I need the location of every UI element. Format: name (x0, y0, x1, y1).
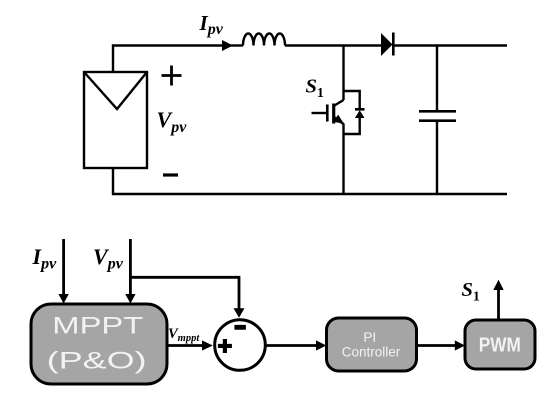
svg-text:PWM: PWM (479, 334, 521, 357)
svg-text:Controller: Controller (342, 345, 401, 360)
svg-text:PI: PI (363, 330, 376, 345)
svg-text:(P&O): (P&O) (47, 348, 147, 375)
svg-text:MPPT: MPPT (52, 313, 143, 340)
